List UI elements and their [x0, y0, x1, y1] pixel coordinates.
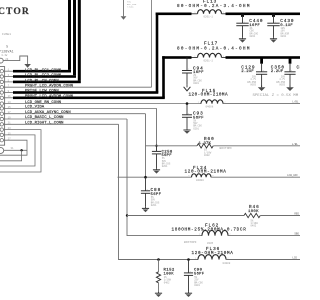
power net arrow — [121, 0, 127, 20]
wire FL24 in — [118, 176, 192, 178]
junction dot R152 — [157, 258, 160, 261]
C93 specs — [193, 119, 202, 130]
C93 labels — [193, 112, 204, 121]
C350 specs — [276, 75, 285, 86]
ground C129 arrow — [258, 86, 266, 92]
resistor R152 — [156, 260, 160, 292]
FL62 footprint — [184, 241, 214, 245]
connector pin row 5 LCD_RL_CN_CONN — [0, 0, 81, 84]
svg-text:04008: 04008 — [223, 262, 231, 265]
svg-text:PRGHT_LCD_AVDDN_CONN: PRGHT_LCD_AVDDN_CONN — [25, 84, 74, 88]
svg-text:0603: 0603 — [279, 84, 285, 87]
junction dot C440 — [241, 14, 244, 17]
note SPECIAL — [253, 94, 299, 98]
junction dot C93 — [186, 102, 189, 105]
svg-text:0201: 0201 — [250, 35, 256, 38]
svg-text:RED: RED — [294, 213, 299, 216]
C350 thick stub — [289, 58, 292, 64]
ferrite FL36 label — [192, 247, 234, 256]
svg-text:LCD_AUXA_ASYNC_CONN: LCD_AUXA_ASYNC_CONN — [25, 111, 71, 115]
C440 labels — [249, 19, 263, 28]
junction dot R60 — [155, 145, 157, 147]
svg-text:C3: C3 — [297, 66, 301, 70]
svg-text:L/BL: L/BL — [292, 142, 299, 146]
svg-text:100K: 100K — [248, 210, 259, 214]
svg-text:FUSE1: FUSE1 — [2, 33, 11, 36]
power net name — [127, 0, 137, 8]
wire pin31 to junction — [4, 149, 27, 151]
capacitor C93 — [182, 104, 192, 129]
ferrite FL24 label — [185, 166, 227, 175]
svg-text:2.2UF: 2.2UF — [271, 70, 284, 74]
connector pin row 23 pin 23 — [0, 127, 41, 172]
C88 specs — [151, 196, 160, 207]
svg-text:CTOR: CTOR — [0, 6, 30, 17]
wire FL24 out — [211, 176, 300, 178]
resistor R60 — [197, 144, 213, 148]
connector pin row 25 pin 25 — [0, 132, 35, 166]
C129 thick stub — [260, 58, 263, 64]
junction dot C90 — [187, 258, 190, 261]
svg-text:2.2UF: 2.2UF — [241, 70, 254, 74]
svg-text:LCB_HIF: LCB_HIF — [287, 174, 298, 177]
C258 labels — [162, 150, 173, 158]
ferrite FL62 label — [172, 223, 247, 232]
thick wire FL17 out — [222, 56, 301, 59]
connector pin row 3 LCD_RL_CC2_CONN — [0, 0, 76, 78]
svg-text:LCD_RL_CC2_CONN: LCD_RL_CC2_CONN — [25, 74, 62, 78]
svg-text:04008: 04008 — [206, 105, 214, 108]
connector pin row 7 PRGHT_LCD_AVDDN_CONN — [0, 0, 151, 89]
C350 labels — [271, 65, 285, 74]
capacitor C94 — [182, 59, 192, 85]
svg-text:1.37K: 1.37K — [199, 142, 212, 146]
net label R46 out — [294, 213, 299, 216]
connector pin row 21 LCD_RIGHT_L_CONN — [0, 122, 118, 127]
svg-text:0201: 0201 — [162, 165, 168, 168]
svg-text:80-OHM-0.2A-3.4-OHM: 80-OHM-0.2A-3.4-OHM — [177, 4, 251, 9]
ferrite FL13 label — [177, 0, 251, 9]
svg-text:0402: 0402 — [164, 281, 170, 284]
junction dot C94 — [186, 56, 189, 59]
svg-text:BOXTOPF: BOXTOPF — [184, 241, 197, 244]
svg-text:0402: 0402 — [204, 154, 210, 157]
C94 specs — [193, 74, 202, 85]
connector pin row 27 pin 27 — [0, 138, 27, 156]
wire FL62 out — [228, 235, 300, 237]
svg-text:L/BL: L/BL — [292, 100, 299, 104]
svg-text:LCD_VIDA: LCD_VIDA — [25, 106, 45, 110]
svg-text:LCD_RIGHT_L_CONN: LCD_RIGHT_L_CONN — [25, 122, 64, 126]
svg-text:0305: 0305 — [207, 242, 214, 245]
junction dot C439 — [272, 14, 275, 17]
svg-text:LCD_RL_CN_CONN: LCD_RL_CN_CONN — [25, 80, 59, 84]
FL13 footprint — [204, 16, 214, 19]
chassis arrow — [24, 64, 31, 68]
wire pin29 to arrow — [3, 56, 27, 64]
FL15 footprint — [206, 105, 214, 108]
net label FL36 out — [292, 257, 297, 260]
svg-text:31: 31 — [11, 147, 15, 150]
ground C93 — [183, 128, 190, 133]
ferrite FL62 — [199, 230, 231, 235]
connector pin row 1 LCD_RL_CC1_CONN — [0, 0, 71, 73]
ground C440 — [239, 37, 246, 42]
capacitor C? (cut at edge) — [297, 66, 303, 70]
ferrite FL13 — [194, 10, 224, 14]
junction dot pin31 — [20, 149, 22, 151]
ground C94 arrow — [184, 85, 191, 91]
wire LCD_VIDA down — [156, 108, 158, 151]
svg-text:LCD_ONE_BN_CONN: LCD_ONE_BN_CONN — [25, 101, 62, 105]
C129 labels — [241, 65, 255, 74]
R60 labels — [199, 137, 215, 146]
wire FL17 left lead — [192, 57, 198, 59]
pin 31 (large) — [0, 147, 14, 153]
junction dot R46 line — [126, 214, 128, 216]
ferrite FL15 label — [189, 89, 229, 98]
svg-text:0603: 0603 — [250, 84, 256, 87]
wire R46 out — [261, 215, 301, 217]
svg-text:0402: 0402 — [251, 225, 257, 228]
R152 labels — [164, 268, 175, 276]
note BOXTOPF — [220, 147, 233, 150]
svg-text:SPECIAL Z = 0.5X MM: SPECIAL Z = 0.5X MM — [253, 94, 299, 98]
connector ref FUSE1 — [2, 33, 11, 36]
wire R46 left — [127, 215, 244, 217]
svg-text:0201: 0201 — [193, 127, 199, 130]
FL24 footprint — [196, 179, 204, 182]
connector pin row 11 PRGHT_LCD_AVDDM_CONN — [0, 56, 191, 99]
FL17 footprint — [204, 59, 214, 62]
C439 labels — [280, 19, 294, 28]
svg-text:80-OHM-0.2A-0.4-OHM: 80-OHM-0.2A-0.4-OHM — [177, 46, 251, 51]
ferrite FL36 — [195, 255, 229, 260]
wire R60 left — [146, 145, 198, 147]
connector pin row 13 LCD_ONE_BN_CONN — [0, 101, 201, 106]
svg-text:LCD_RL_CC1_CONN: LCD_RL_CC1_CONN — [25, 69, 62, 73]
capacitor C88 — [141, 177, 150, 207]
net label FL62 out — [294, 233, 299, 236]
connector pin row 19 LCD_BASIC_L_CONN — [0, 116, 127, 121]
capacitor C90 — [184, 260, 193, 292]
capacitor C258 — [152, 147, 161, 168]
pin 29 — [0, 58, 9, 63]
C258 specs — [162, 157, 171, 168]
C439 specs — [281, 27, 290, 38]
ferrite FL15 — [198, 100, 226, 104]
C129 specs — [247, 75, 256, 86]
C88 labels — [151, 188, 162, 197]
svg-text:0201-1: 0201-1 — [204, 16, 214, 19]
wire row9 down to FL24 — [145, 114, 147, 178]
ferrite FL17 — [194, 53, 224, 57]
ferrite FL17 label — [177, 42, 251, 52]
ground C88 — [142, 207, 149, 212]
svg-text:0201: 0201 — [151, 204, 157, 207]
R46 specs — [251, 219, 259, 227]
C440 specs — [250, 27, 259, 38]
svg-text:0201: 0201 — [193, 82, 199, 85]
capacitor C440 — [236, 16, 248, 37]
connector pin row 17 LCD_AUXA_ASYNC_CONN — [0, 111, 145, 116]
svg-text:P12BVA1: P12BVA1 — [0, 49, 14, 53]
ground C439 — [270, 37, 277, 42]
C90 specs — [194, 276, 203, 287]
net label FL15 out — [292, 100, 299, 104]
wire FL13 left lead — [192, 13, 198, 15]
FL36 footprint — [223, 262, 231, 265]
connector pin row 15 LCD_VIDA — [0, 106, 156, 111]
ground R152 — [155, 292, 162, 297]
connector J1 body — [0, 67, 5, 146]
ferrite FL24 — [188, 174, 214, 177]
svg-text:0201-1: 0201-1 — [204, 59, 214, 62]
C90 labels — [194, 268, 205, 276]
capacitor C439 — [267, 16, 279, 37]
thick wire FL13 out — [222, 13, 301, 16]
R152 specs — [164, 276, 172, 284]
R46 labels — [248, 205, 260, 214]
svg-text:SBD: SBD — [294, 233, 299, 236]
wire row11 down to FL36 — [119, 124, 199, 259]
wire FL36 out — [226, 259, 300, 261]
R60 specs — [204, 149, 212, 157]
C94 labels — [193, 66, 204, 75]
ground C90 — [185, 292, 192, 297]
svg-text:04008: 04008 — [196, 179, 204, 182]
net label R60 out — [292, 142, 299, 146]
capacitor C129 — [256, 64, 267, 87]
svg-text:0201: 0201 — [194, 284, 200, 287]
svg-text:120-OHM-210MA: 120-OHM-210MA — [189, 93, 229, 98]
ground C258 — [153, 168, 160, 173]
svg-text:5: 5 — [6, 45, 8, 49]
wire FL15 out — [223, 103, 300, 105]
ground C350 arrow — [286, 86, 294, 92]
junction dot C88 — [144, 176, 147, 179]
connector pin row 9 PRISE_LCW_CONN — [0, 13, 191, 95]
wire junction down-left — [0, 150, 22, 161]
net label FL24 out — [287, 174, 298, 177]
connector part number — [0, 45, 14, 57]
svg-text:BOXTOPF: BOXTOPF — [220, 147, 233, 150]
svg-text:LCD: LCD — [292, 257, 297, 260]
svg-text:TJV01: TJV01 — [127, 6, 134, 9]
wire row10 down to FL62 — [127, 119, 202, 236]
svg-text:0.1W: 0.1W — [2, 54, 8, 57]
title text CONNECTOR (cut) — [0, 6, 30, 17]
wire R60 out — [214, 145, 301, 147]
svg-text:120-OHM-210MA: 120-OHM-210MA — [185, 170, 227, 175]
svg-text:LCD_BASIC_L_CONN: LCD_BASIC_L_CONN — [25, 116, 64, 120]
svg-text:PRGHT_LCD_AVDDM_CONN: PRGHT_LCD_AVDDM_CONN — [25, 95, 74, 99]
svg-text:PRISE_LCW_CONN: PRISE_LCW_CONN — [25, 90, 59, 94]
resistor R46 — [244, 213, 260, 217]
capacitor C350 — [284, 64, 295, 87]
svg-text:0201: 0201 — [281, 35, 287, 38]
